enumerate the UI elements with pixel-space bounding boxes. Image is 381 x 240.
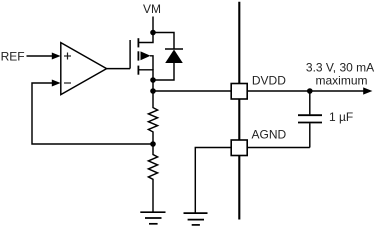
transistor Q1 body arrow <box>141 51 154 69</box>
transistor Q1 gate bar <box>129 40 131 69</box>
wire op-amp output to gate <box>107 68 131 70</box>
svg-text:DVDD: DVDD <box>252 74 286 88</box>
transistor Q1 drain lead <box>138 33 153 43</box>
ground (resistor divider) <box>140 212 165 224</box>
wire REF to op-amp noninverting input <box>27 53 61 60</box>
svg-text:REF: REF <box>1 49 25 63</box>
svg-text:1 µF: 1 µF <box>329 110 353 124</box>
ground (AGND) <box>184 213 208 225</box>
wire feedback to inverting input <box>32 80 153 145</box>
body diode D1 branch wire bottom <box>153 63 174 80</box>
transistor Q1 channel segments <box>137 38 139 74</box>
op-amp - input marker <box>64 82 71 84</box>
node source-diode junction <box>150 77 156 83</box>
chip edge bar <box>238 2 240 220</box>
body diode D1 branch wire top <box>153 33 174 50</box>
resistor R1 <box>148 105 157 145</box>
capacitor C1 <box>298 91 322 148</box>
svg-text:AGND: AGND <box>252 128 287 142</box>
wire capacitor to AGND pin <box>247 147 310 149</box>
pin DVDD terminal square <box>231 84 247 100</box>
wire VM to drain node <box>152 17 154 33</box>
node source-DVDD junction <box>150 88 156 94</box>
node drain/VM junction <box>150 30 156 36</box>
wire DVDD output with arrow <box>247 87 372 94</box>
svg-text:VM: VM <box>143 2 161 16</box>
resistor R2 <box>148 144 157 212</box>
wire source to DVDD pin <box>153 90 231 92</box>
wire AGND to ground <box>195 148 231 214</box>
node capacitor junction <box>307 88 313 94</box>
op-amp U1 <box>61 43 107 95</box>
wire source node down <box>152 80 154 105</box>
transistor Q1 source lead <box>138 70 153 80</box>
svg-text:maximum: maximum <box>316 73 368 87</box>
op-amp + input marker <box>64 53 71 60</box>
pin AGND terminal square <box>231 140 247 156</box>
node feedback junction <box>150 141 156 147</box>
body diode D1 <box>165 49 183 63</box>
